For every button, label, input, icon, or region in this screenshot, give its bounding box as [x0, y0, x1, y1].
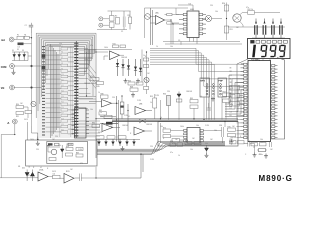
resistor R89 — [76, 154, 83, 157]
svg-text:R51: R51 — [230, 29, 233, 31]
wire — [225, 75, 244, 117]
wire — [49, 47, 85, 76]
wire — [0, 177, 23, 179]
svg-text:R5: R5 — [61, 46, 63, 48]
capacitor C13 electrolytic — [280, 21, 282, 24]
svg-text:R63: R63 — [223, 91, 226, 93]
ground — [36, 141, 40, 146]
wire — [47, 45, 86, 76]
wire — [255, 59, 257, 61]
svg-text:PNP: PNP — [219, 80, 224, 82]
svg-text:C1: C1 — [230, 112, 232, 114]
wire — [150, 53, 244, 79]
capacitor C20 — [230, 86, 240, 91]
svg-text:0.1: 0.1 — [84, 71, 86, 73]
capacitor C24 — [207, 107, 212, 109]
socket hFE PNP side — [218, 78, 227, 97]
resistor R41 — [113, 45, 119, 48]
wire — [165, 19, 172, 21]
svg-text:R19: R19 — [61, 124, 64, 126]
svg-text:9013: 9013 — [24, 119, 28, 121]
ic U5 right pins 6-10 — [199, 14, 206, 35]
svg-text:9013: 9013 — [98, 132, 102, 134]
ground — [264, 154, 268, 159]
wire — [28, 55, 32, 57]
resistor R95 — [170, 143, 176, 147]
wire — [240, 87, 244, 89]
capacitor C38 — [79, 174, 81, 182]
svg-text:1k: 1k — [150, 102, 152, 104]
svg-text:220: 220 — [55, 136, 58, 138]
resistor R97 — [194, 142, 201, 145]
svg-text:NPN: NPN — [201, 80, 206, 82]
svg-text:R48: R48 — [130, 87, 133, 89]
wire — [40, 37, 93, 104]
op-amp U8B — [135, 107, 146, 115]
svg-text:ICL7106: ICL7106 — [251, 59, 259, 61]
transistor Q8 — [51, 149, 57, 155]
diode D32 — [23, 54, 26, 57]
wire — [38, 35, 94, 111]
wire — [29, 37, 31, 39]
wire — [46, 46, 75, 134]
svg-text:R98: R98 — [230, 139, 233, 141]
svg-text:10k: 10k — [160, 126, 163, 128]
resistor R48 — [130, 88, 138, 91]
ground — [12, 70, 16, 75]
wire — [113, 119, 147, 123]
resistor R51 — [224, 26, 229, 33]
svg-text:10k: 10k — [260, 139, 263, 141]
resistor R54 — [167, 22, 172, 24]
resistor R100 — [251, 143, 258, 146]
svg-text:220: 220 — [210, 5, 213, 7]
resistor R91 — [66, 153, 73, 156]
wire — [84, 49, 132, 51]
buzzer BZ1 — [205, 15, 211, 21]
op-amp U10A — [38, 172, 48, 181]
wire — [237, 59, 249, 120]
resistor R58 — [176, 99, 182, 102]
wire — [36, 33, 96, 118]
wire — [144, 8, 146, 38]
svg-text:mA: mA — [1, 39, 5, 42]
diode D5 switch node — [42, 54, 46, 58]
svg-text:D2: D2 — [17, 49, 19, 51]
svg-text:100k: 100k — [84, 59, 88, 61]
resistor R90 — [66, 148, 73, 151]
svg-text:47n: 47n — [230, 104, 233, 106]
svg-text:R95: R95 — [170, 141, 173, 143]
svg-text:47n: 47n — [170, 152, 173, 154]
node A terminal — [12, 119, 17, 124]
svg-text:R45: R45 — [97, 86, 100, 88]
node COM terminal — [10, 64, 15, 69]
svg-text:R59: R59 — [150, 96, 153, 98]
wire — [176, 14, 179, 16]
ic U6 — [187, 128, 200, 144]
resistor R1b — [18, 43, 24, 46]
resistor R71 — [106, 122, 113, 125]
svg-text:F1: F1 — [17, 35, 19, 37]
svg-text:4MHz: 4MHz — [259, 154, 263, 156]
wire — [97, 145, 225, 149]
wire — [97, 142, 225, 155]
svg-text:1N4148: 1N4148 — [230, 137, 236, 139]
svg-text:0.1: 0.1 — [128, 116, 130, 118]
resistor R3 — [129, 17, 132, 24]
resistor R62 — [190, 105, 198, 108]
wire — [150, 64, 214, 119]
ic U6 box — [158, 122, 238, 147]
capacitor C36 — [269, 142, 271, 147]
wire — [168, 106, 170, 120]
svg-text:C30: C30 — [219, 125, 222, 127]
svg-text:220: 220 — [112, 97, 115, 99]
transistor Q5 — [144, 77, 149, 82]
wire — [140, 154, 142, 178]
wire — [231, 94, 236, 96]
switch SW1 wafer contact column — [74, 43, 78, 137]
capacitor C22 — [230, 102, 240, 107]
svg-text:10k: 10k — [100, 116, 103, 118]
wire — [14, 124, 16, 135]
wire — [203, 130, 221, 132]
ic U1 left pins 1-21 — [241, 63, 248, 138]
resistor R64 — [223, 99, 231, 102]
wire — [79, 121, 100, 136]
svg-text:9013: 9013 — [52, 171, 56, 173]
wire — [150, 16, 155, 18]
svg-text:47n: 47n — [28, 175, 31, 177]
wire — [24, 43, 32, 45]
resistor R110 — [53, 175, 61, 178]
svg-text:R14: R14 — [61, 96, 64, 98]
svg-text:220: 220 — [167, 91, 170, 93]
svg-text:10k: 10k — [214, 130, 217, 132]
wire — [97, 143, 225, 154]
resistor R80 — [101, 95, 109, 98]
capacitor C30 — [221, 127, 223, 137]
node V-ohm terminal — [10, 85, 15, 90]
svg-text:47n: 47n — [246, 7, 249, 9]
resistor R74 — [172, 139, 180, 142]
ic U6 pins — [184, 130, 204, 142]
wire — [171, 130, 184, 132]
resistor R45 — [97, 82, 104, 85]
svg-text:470k: 470k — [90, 76, 94, 78]
capacitor C10 electrolytic — [255, 21, 257, 24]
wire — [237, 79, 241, 138]
node mA input terminal — [9, 37, 14, 42]
node BZ terminal 2 — [99, 23, 103, 27]
svg-text:220: 220 — [150, 146, 153, 148]
svg-text:R6: R6 — [61, 52, 63, 54]
ic power box — [26, 140, 97, 166]
capacitor C35 — [247, 141, 249, 147]
svg-text:10k: 10k — [90, 109, 93, 111]
resistor R59 — [153, 98, 157, 108]
wire — [150, 58, 206, 120]
wire — [75, 41, 77, 138]
resistor R2 — [116, 18, 120, 25]
svg-text:R90: R90 — [66, 146, 69, 148]
svg-text:R46: R46 — [128, 81, 131, 83]
op-amp U3A — [110, 51, 120, 60]
wire — [116, 96, 118, 142]
svg-text:1N4148: 1N4148 — [186, 91, 192, 93]
svg-text:R80: R80 — [101, 93, 104, 95]
wire — [42, 39, 92, 97]
diode D10-D15 row — [97, 139, 135, 146]
resistor R47 — [137, 82, 144, 85]
wire — [271, 58, 285, 140]
display LCD1 digits 1999 — [252, 45, 286, 58]
svg-text:2.2M: 2.2M — [78, 149, 82, 151]
wire — [31, 126, 33, 133]
resistor R84 — [107, 136, 115, 139]
svg-text:R111: R111 — [66, 171, 70, 173]
resistor R96 — [185, 142, 192, 145]
svg-text:1k: 1k — [200, 96, 202, 98]
svg-text:1N4148: 1N4148 — [84, 83, 90, 85]
resistor R73 — [163, 135, 171, 138]
resistor R31 — [16, 112, 24, 115]
svg-text:2.2M: 2.2M — [155, 95, 159, 97]
svg-text:R60: R60 — [163, 94, 166, 96]
svg-text:U7: U7 — [76, 106, 78, 108]
wire — [150, 48, 244, 64]
svg-text:1N4148: 1N4148 — [66, 144, 72, 146]
diode D22 — [25, 173, 29, 177]
svg-text:VΩ: VΩ — [1, 87, 5, 90]
resistor R61 — [190, 100, 198, 103]
wire — [228, 26, 285, 28]
wire bus — [96, 118, 238, 120]
svg-text:2.2M: 2.2M — [150, 159, 154, 161]
transistor Q7 — [31, 101, 36, 106]
node BZ terminal 1 — [99, 17, 103, 21]
svg-text:1N4148: 1N4148 — [121, 57, 127, 59]
svg-text:2.2M: 2.2M — [137, 100, 141, 102]
svg-text:R17: R17 — [61, 113, 64, 115]
capacitor C11 electrolytic — [264, 21, 266, 24]
svg-text:R61: R61 — [190, 98, 193, 100]
wire — [23, 177, 38, 179]
op-amp U9B — [134, 127, 145, 135]
resistor R32 — [25, 111, 32, 114]
wire — [12, 51, 28, 53]
diode D21 — [205, 148, 209, 151]
wire — [97, 144, 225, 150]
diode D1-D4 input clamp — [116, 59, 142, 76]
resistor R60 — [167, 96, 171, 106]
wire — [252, 37, 285, 39]
transistor Q2 — [110, 22, 115, 28]
svg-text:220: 220 — [205, 143, 208, 145]
svg-text:B1: B1 — [18, 166, 20, 168]
switch SW1 wafer 2 contact column — [42, 46, 45, 136]
svg-text:R7: R7 — [61, 57, 63, 59]
resistor R76 — [228, 134, 236, 137]
ground — [205, 153, 209, 158]
socket hFE NPN side — [200, 78, 210, 97]
op-amp U4 — [156, 16, 165, 25]
fuse F1 — [17, 36, 24, 39]
wire — [95, 50, 97, 159]
svg-text:0.22: 0.22 — [230, 88, 233, 90]
crystal X1 — [259, 149, 266, 152]
ground — [124, 79, 128, 84]
svg-text:1N4148: 1N4148 — [146, 124, 152, 126]
resistor R93 row — [48, 143, 53, 145]
wire — [163, 41, 240, 43]
wire — [250, 143, 255, 145]
wire — [203, 18, 206, 20]
resistor R92 — [49, 158, 56, 161]
svg-text:R20: R20 — [61, 129, 64, 131]
wire — [48, 146, 60, 148]
resistor R42 — [120, 45, 126, 48]
capacitor C21 — [230, 94, 240, 99]
svg-text:1k: 1k — [100, 112, 102, 114]
resistor R53 — [167, 13, 172, 15]
svg-text:R31: R31 — [16, 116, 19, 118]
wire — [100, 116, 116, 118]
wire — [79, 49, 96, 109]
svg-text:R1: R1 — [24, 35, 26, 37]
resistor R57 — [144, 87, 149, 90]
svg-text:R89: R89 — [76, 152, 79, 154]
ic U1 ICL7106 — [248, 61, 271, 142]
resistor R99 — [238, 141, 245, 144]
wire — [86, 52, 88, 96]
svg-text:10k: 10k — [190, 149, 193, 151]
transistor Q4 — [233, 14, 241, 22]
capacitor C1 — [122, 17, 124, 28]
resistor R63 — [223, 93, 231, 96]
wire — [150, 55, 244, 86]
wire — [150, 62, 212, 119]
wire — [165, 14, 167, 16]
ground — [121, 146, 125, 151]
wire — [51, 44, 59, 138]
svg-text:470: 470 — [80, 163, 83, 165]
transistor Q3 — [145, 14, 151, 20]
diode D8 — [177, 94, 181, 97]
battery box 9V — [47, 142, 88, 164]
wire — [43, 41, 89, 90]
resistor R55 — [144, 58, 149, 61]
ground — [131, 93, 135, 98]
svg-text:R10: R10 — [61, 74, 64, 76]
svg-text:1N4148: 1N4148 — [122, 125, 128, 127]
wire — [97, 144, 225, 152]
svg-text:R72: R72 — [163, 127, 166, 129]
wire — [104, 55, 108, 57]
svg-text:COM: COM — [1, 66, 7, 69]
svg-text:D1: D1 — [12, 50, 14, 52]
resistor R85 — [118, 136, 126, 139]
svg-text:R96: R96 — [185, 140, 188, 142]
display LCD1 annunciator row — [251, 40, 288, 43]
svg-text:2.2M: 2.2M — [205, 125, 209, 127]
resistor R50 — [224, 5, 229, 11]
label component values — [20, 5, 273, 177]
svg-text:10k: 10k — [170, 46, 173, 48]
resistor R56 — [144, 65, 149, 68]
resistor R70 — [104, 115, 112, 118]
ic U1 right pins 22-40 — [272, 65, 278, 139]
wire — [45, 43, 88, 83]
diode D23 — [31, 173, 35, 177]
svg-text:B1: B1 — [230, 115, 232, 117]
wire — [203, 97, 205, 120]
socket hFE pin holes — [206, 84, 221, 95]
svg-text:47n: 47n — [90, 45, 93, 47]
resistor R72 — [163, 129, 171, 132]
svg-text:R9: R9 — [61, 68, 63, 70]
svg-text:1k: 1k — [156, 46, 158, 48]
ic U5 left pins 1-5 — [179, 14, 187, 35]
label U1 pin names — [230, 68, 233, 118]
ground — [253, 153, 257, 158]
ground — [136, 79, 140, 84]
wire — [249, 142, 251, 143]
svg-text:R75: R75 — [228, 126, 231, 128]
svg-text:R41: R41 — [113, 44, 116, 46]
wire — [150, 60, 209, 120]
ic U7 pins — [72, 110, 90, 133]
resistor R52 — [248, 11, 255, 14]
svg-text:220: 220 — [36, 149, 39, 151]
wire — [154, 94, 156, 98]
resistor R75 — [228, 128, 236, 131]
resistor R81 — [99, 112, 107, 115]
wire — [14, 39, 17, 41]
wire — [189, 38, 191, 42]
resistor divider chain R5-R24 — [61, 46, 68, 133]
capacitor C2 — [29, 24, 33, 26]
resistor R44 — [90, 78, 99, 81]
wire — [14, 65, 31, 67]
svg-text:4069: 4069 — [190, 9, 194, 11]
wire — [37, 34, 95, 138]
svg-text:220: 220 — [59, 43, 62, 45]
node junction — [31, 65, 33, 67]
diode D31 — [18, 54, 21, 57]
op-amp U10B — [64, 174, 74, 184]
svg-text:R11: R11 — [61, 79, 64, 81]
resistor R1 — [24, 36, 29, 39]
capacitor C26 tall — [120, 102, 124, 114]
svg-text:100k: 100k — [104, 47, 108, 49]
svg-text:10k: 10k — [53, 174, 56, 176]
svg-text:R52 1k: R52 1k — [248, 9, 254, 11]
node junction dots — [14, 18, 242, 179]
svg-text:R3: R3 — [128, 15, 130, 17]
transistor Q1 — [110, 16, 115, 22]
ic U5 MC14069 — [187, 11, 199, 38]
wire — [150, 51, 244, 72]
svg-text:R12: R12 — [61, 85, 64, 87]
svg-text:10k: 10k — [196, 125, 199, 127]
svg-text:x1: x1 — [29, 167, 31, 169]
resistor R30 — [16, 106, 24, 109]
svg-text:M890·G: M890·G — [259, 174, 293, 183]
wire — [24, 106, 29, 108]
diode D30 — [13, 54, 16, 57]
